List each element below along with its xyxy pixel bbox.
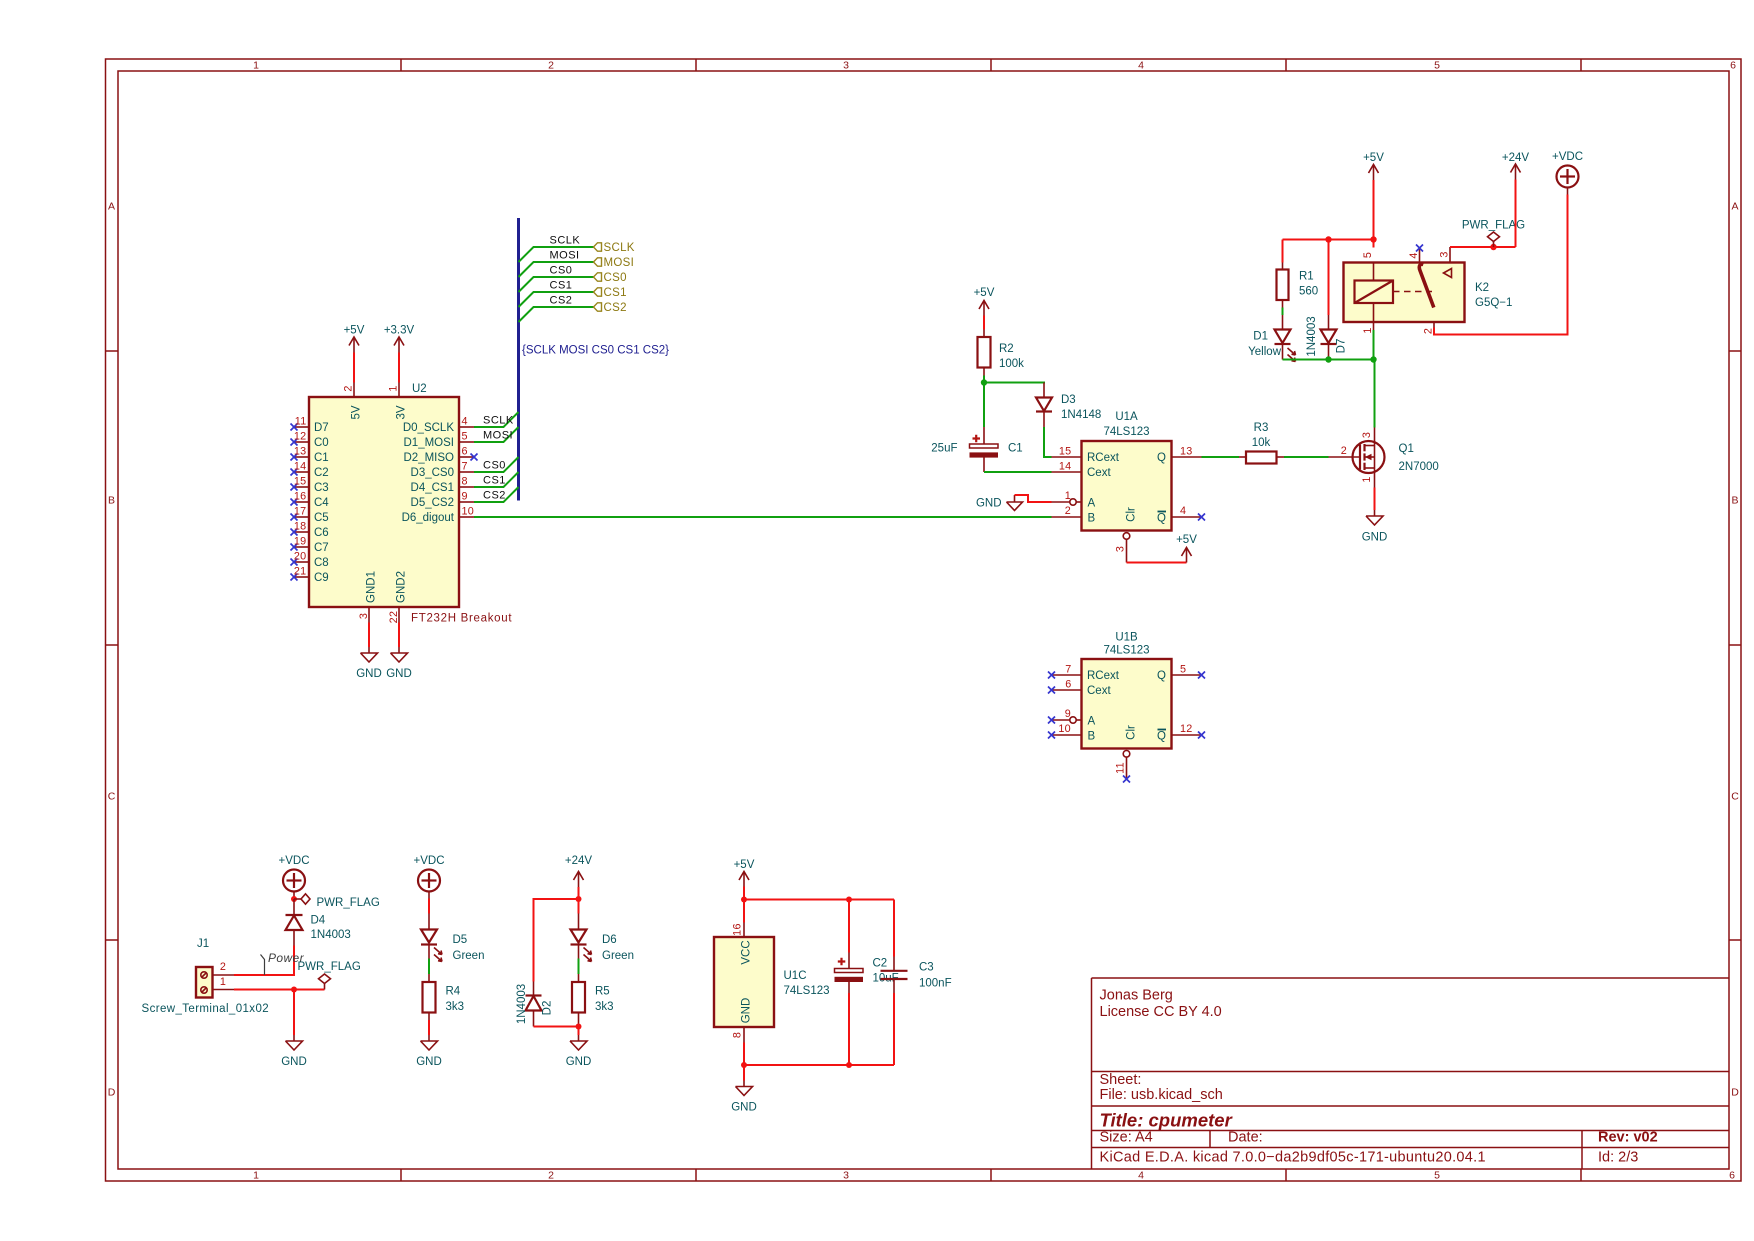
svg-text:+5V: +5V <box>1363 152 1384 164</box>
svg-text:KiCad E.D.A. kicad 7.0.0−da2b: KiCad E.D.A. kicad 7.0.0−da2b9df05c-171-… <box>1100 1150 1486 1166</box>
pin 4 D0_SCLK <box>403 416 474 435</box>
svg-text:11: 11 <box>1115 762 1127 774</box>
svg-text:2: 2 <box>1065 505 1071 517</box>
svg-text:3: 3 <box>358 613 370 619</box>
svg-text:1: 1 <box>1362 327 1374 333</box>
svg-text:+VDC: +VDC <box>414 855 445 867</box>
svg-text:D2_MISO: D2_MISO <box>404 452 455 464</box>
svg-text:4: 4 <box>1138 60 1144 72</box>
svg-text:13: 13 <box>294 446 307 458</box>
ground <box>416 1035 442 1068</box>
power +VDC <box>1552 151 1583 195</box>
svg-text:G5Q−1: G5Q−1 <box>1475 297 1512 309</box>
svg-text:R1: R1 <box>1299 271 1314 283</box>
svg-text:R3: R3 <box>1254 422 1269 434</box>
wire relay pin 3 <box>1450 246 1516 248</box>
svg-text:3k3: 3k3 <box>595 1001 614 1013</box>
wire <box>428 1020 430 1035</box>
svg-text:3V: 3V <box>396 405 408 419</box>
svg-text:Q1: Q1 <box>1399 443 1414 455</box>
power +5V <box>974 287 995 316</box>
wire branch to D2 <box>534 899 579 982</box>
svg-text:U2: U2 <box>412 383 427 395</box>
svg-text:1: 1 <box>1361 476 1373 482</box>
svg-text:A: A <box>1088 716 1096 728</box>
svg-text:C9: C9 <box>314 572 329 584</box>
resistor R3 10k <box>1239 422 1284 464</box>
svg-text:13: 13 <box>1180 446 1193 458</box>
svg-text:1: 1 <box>1065 490 1071 502</box>
svg-text:4: 4 <box>1138 1170 1144 1182</box>
wire <box>578 887 580 914</box>
pin 12 Qbar no-connect <box>1157 723 1205 743</box>
svg-text:C0: C0 <box>314 437 329 449</box>
wire <box>743 1043 745 1081</box>
svg-text:+5V: +5V <box>1176 534 1197 546</box>
hierarchical label MOSI <box>594 257 635 269</box>
ground <box>976 495 1023 511</box>
svg-text:U1B: U1B <box>1115 632 1138 644</box>
svg-text:Size: A4: Size: A4 <box>1100 1130 1153 1146</box>
pin 1 3V <box>388 383 408 420</box>
diode D3 1N4148 <box>1036 383 1101 428</box>
svg-text:5: 5 <box>1434 60 1440 72</box>
ground <box>1362 510 1388 544</box>
pin 14 Cext <box>1052 461 1112 480</box>
junction <box>291 987 297 993</box>
ground <box>281 1035 307 1068</box>
pin 8 D4_CS1 <box>411 476 474 495</box>
svg-text:100nF: 100nF <box>919 978 952 990</box>
svg-text:D3: D3 <box>1061 394 1076 406</box>
wire SCLK <box>519 247 594 262</box>
wire <box>1044 427 1052 457</box>
svg-text:D4: D4 <box>311 915 326 927</box>
svg-text:1: 1 <box>220 976 226 988</box>
svg-text:15: 15 <box>1059 446 1072 458</box>
svg-text:7: 7 <box>1065 664 1071 676</box>
svg-text:D5_CS2: D5_CS2 <box>411 497 454 509</box>
pin 1 A inverted <box>1065 490 1096 510</box>
wire MOSI <box>474 427 519 442</box>
svg-text:+5V: +5V <box>734 859 755 871</box>
U2BLOCK <box>291 325 1052 681</box>
svg-text:CS0: CS0 <box>483 460 506 472</box>
svg-text:12: 12 <box>1180 723 1193 735</box>
pin 8 GND <box>732 998 753 1043</box>
BUSBLOCK <box>519 218 670 501</box>
pin 16 C4 <box>291 491 330 510</box>
pin 4 Qbar no-connect <box>1157 505 1205 525</box>
pin 11 Clr inverted no-connect <box>1115 725 1138 783</box>
power +VDC <box>414 855 445 899</box>
svg-text:D3_CS0: D3_CS0 <box>411 467 454 479</box>
svg-text:Date:: Date: <box>1228 1130 1263 1146</box>
wire R3 to Q1 <box>1284 456 1329 458</box>
svg-text:R5: R5 <box>595 986 610 998</box>
D5BLOCK <box>414 855 485 1068</box>
wire pin2 to D4 <box>234 946 294 976</box>
svg-text:16: 16 <box>294 491 307 503</box>
pin 2 5V <box>343 383 363 420</box>
svg-text:6: 6 <box>1729 1170 1735 1182</box>
svg-text:RCext: RCext <box>1087 452 1120 464</box>
svg-text:D: D <box>1731 1087 1739 1099</box>
svg-text:C3: C3 <box>314 482 329 494</box>
resistor R2 100k <box>978 330 1025 376</box>
svg-text:C7: C7 <box>314 542 329 554</box>
svg-text:Yellow: Yellow <box>1248 346 1282 358</box>
svg-text:CS1: CS1 <box>604 287 627 299</box>
pin 6 D2_MISO no-connect <box>404 446 478 465</box>
IC U1A 74LS123 <box>1082 441 1172 531</box>
svg-text:R4: R4 <box>446 986 461 998</box>
svg-text:GND: GND <box>566 1056 592 1068</box>
svg-text:74LS123: 74LS123 <box>784 985 830 997</box>
LED D5 Green <box>421 914 484 963</box>
svg-text:CS2: CS2 <box>550 295 573 307</box>
svg-text:1: 1 <box>388 385 400 391</box>
svg-text:C: C <box>108 791 116 803</box>
svg-text:Green: Green <box>453 950 485 962</box>
svg-text:5: 5 <box>462 431 468 443</box>
pin 14 C2 <box>291 461 329 480</box>
pin 5 D1_MOSI <box>404 431 475 450</box>
svg-text:C8: C8 <box>314 557 329 569</box>
pin 13 C1 <box>291 446 329 465</box>
junction <box>741 897 747 903</box>
resistor R4 3k3 <box>423 974 465 1020</box>
svg-text:GND: GND <box>976 498 1002 510</box>
wire D7 top <box>1328 240 1330 316</box>
wire +24V <box>1515 180 1517 248</box>
pin 3 GND1 <box>358 571 378 622</box>
svg-text:U1C: U1C <box>784 970 807 982</box>
svg-text:+VDC: +VDC <box>1552 151 1583 163</box>
svg-text:SCLK: SCLK <box>604 242 635 254</box>
wire <box>983 376 985 428</box>
svg-text:FT232H Breakout: FT232H Breakout <box>411 613 512 625</box>
svg-text:11: 11 <box>295 416 307 428</box>
power +24V <box>1502 152 1530 180</box>
wire MOSI <box>519 262 594 277</box>
svg-text:GND: GND <box>1362 532 1388 544</box>
junction <box>291 896 297 902</box>
svg-text:D0_SCLK: D0_SCLK <box>403 422 454 434</box>
pin 9 D5_CS2 <box>411 491 474 510</box>
power +VDC <box>279 855 310 899</box>
pin 10 B no-connect <box>1048 723 1096 743</box>
svg-text:Jonas Berg: Jonas Berg <box>1100 988 1173 1004</box>
diode D4 1N4003 <box>286 899 351 946</box>
wire CS2 <box>474 487 519 502</box>
LED D6 Green <box>571 914 634 963</box>
pin 2 B <box>1052 505 1096 525</box>
svg-text:6: 6 <box>1065 679 1071 691</box>
svg-text:2N7000: 2N7000 <box>1399 461 1439 473</box>
svg-text:A: A <box>1731 201 1738 213</box>
svg-text:1: 1 <box>253 60 259 72</box>
wire <box>984 471 1052 473</box>
wire D2 to R5 <box>534 1026 579 1028</box>
svg-text:C1: C1 <box>1008 443 1023 455</box>
wire <box>428 959 430 975</box>
svg-text:A: A <box>1088 498 1096 510</box>
pin 10 D6_digout <box>402 506 475 525</box>
hierarchical label CS2 <box>594 302 627 314</box>
IC U2 FT232H Breakout <box>309 397 459 607</box>
pin 12 C0 <box>291 431 329 450</box>
svg-text:3: 3 <box>1439 251 1451 257</box>
wire bottom rail <box>744 1064 894 1066</box>
svg-text:+VDC: +VDC <box>279 855 310 867</box>
svg-text:D: D <box>108 1087 116 1099</box>
svg-text:D1_MOSI: D1_MOSI <box>404 437 455 449</box>
power +5V <box>344 325 365 353</box>
U1ABLOCK <box>931 287 1439 563</box>
svg-text:CS2: CS2 <box>483 490 506 502</box>
pin 11 D7 <box>291 416 329 435</box>
svg-text:74LS123: 74LS123 <box>1103 426 1149 438</box>
J1BLOCK <box>142 855 380 1068</box>
svg-text:Cext: Cext <box>1087 685 1111 697</box>
capacitor C2 10uF <box>835 900 899 1066</box>
svg-text:Q: Q <box>1157 513 1166 525</box>
svg-text:4: 4 <box>462 416 468 428</box>
resistor R1 560 <box>1277 263 1319 308</box>
pin 9 A inverted no-connect <box>1048 708 1096 728</box>
svg-text:12: 12 <box>294 431 307 443</box>
bus SCLK/MOSI/CS0/CS1/CS2 <box>517 218 520 501</box>
svg-text:SCLK: SCLK <box>483 415 514 427</box>
pin 5 Q no-connect <box>1157 664 1205 683</box>
svg-text:14: 14 <box>1059 461 1072 473</box>
svg-text:D4_CS1: D4_CS1 <box>411 482 454 494</box>
svg-text:15: 15 <box>294 476 307 488</box>
wire source <box>1374 488 1376 511</box>
pin 19 C7 <box>291 536 329 555</box>
svg-text:1N4003: 1N4003 <box>1306 316 1318 356</box>
svg-text:GND2: GND2 <box>396 571 408 603</box>
wire CS2 <box>519 307 594 322</box>
svg-text:74LS123: 74LS123 <box>1103 645 1149 657</box>
svg-text:C5: C5 <box>314 512 329 524</box>
IC U1C 74LS123 power unit <box>714 937 774 1027</box>
svg-text:B: B <box>1731 495 1738 507</box>
svg-text:100k: 100k <box>999 358 1024 370</box>
svg-text:Title: cpumeter: Title: cpumeter <box>1100 1110 1234 1131</box>
svg-text:5V: 5V <box>351 405 363 419</box>
connector J1 Screw_Terminal_01x02 <box>142 938 270 1015</box>
svg-text:16: 16 <box>732 923 744 936</box>
svg-text:D7: D7 <box>314 422 329 434</box>
pin 16 VCC <box>732 923 753 965</box>
svg-text:MOSI: MOSI <box>604 257 635 269</box>
diode D2 1N4003 <box>516 982 554 1027</box>
svg-text:GND: GND <box>731 1102 757 1114</box>
junction <box>1490 244 1496 250</box>
wire <box>353 353 355 383</box>
pin 18 C6 <box>291 521 329 540</box>
wire relay pin 2 to +VDC <box>1433 322 1435 328</box>
junction <box>1325 236 1331 242</box>
junction <box>1370 356 1376 362</box>
pin 21 C9 <box>291 566 329 585</box>
wire +5V down to relay pin 5 <box>1373 180 1375 248</box>
svg-text:VCC: VCC <box>741 940 753 964</box>
svg-text:2: 2 <box>1423 328 1435 334</box>
ground <box>356 647 382 680</box>
resistor R5 3k3 <box>572 974 614 1027</box>
svg-text:C1: C1 <box>314 452 329 464</box>
wire top rail <box>744 899 894 901</box>
power +24V <box>565 855 593 887</box>
ground <box>386 647 412 680</box>
pin 6 Cext no-connect <box>1048 679 1111 698</box>
svg-text:9: 9 <box>1065 708 1071 720</box>
svg-text:B: B <box>1088 513 1096 525</box>
svg-text:5: 5 <box>1362 252 1374 258</box>
hierarchical label CS0 <box>594 272 627 284</box>
wire <box>368 623 370 648</box>
junction <box>1370 236 1376 242</box>
svg-text:D5: D5 <box>453 934 468 946</box>
net label Power <box>261 951 305 975</box>
power flag PWR_FLAG <box>298 961 361 990</box>
svg-text:Q: Q <box>1157 731 1166 743</box>
svg-text:MOSI: MOSI <box>550 250 580 262</box>
wire relay pin 1 <box>1373 322 1375 330</box>
svg-text:GND: GND <box>416 1056 442 1068</box>
LED D1 Yellow <box>1248 315 1295 362</box>
svg-text:3: 3 <box>843 60 849 72</box>
wire <box>398 353 400 383</box>
svg-text:MOSI: MOSI <box>483 430 513 442</box>
svg-text:Sheet:: Sheet: <box>1100 1072 1142 1088</box>
svg-text:1N4003: 1N4003 <box>516 984 528 1024</box>
svg-text:14: 14 <box>294 461 307 473</box>
svg-text:2: 2 <box>548 60 554 72</box>
svg-text:1: 1 <box>253 1170 259 1182</box>
wire <box>983 316 985 330</box>
svg-text:C2: C2 <box>873 958 888 970</box>
wire <box>398 623 400 648</box>
svg-text:8: 8 <box>462 476 468 488</box>
svg-text:RCext: RCext <box>1087 670 1120 682</box>
svg-text:C: C <box>1731 791 1739 803</box>
svg-text:560: 560 <box>1299 286 1318 298</box>
svg-text:3: 3 <box>1361 432 1373 438</box>
diode D7 1N4003 <box>1306 315 1348 360</box>
svg-text:GND: GND <box>281 1056 307 1068</box>
wire Q to R3 <box>1202 456 1240 458</box>
svg-text:3k3: 3k3 <box>446 1001 465 1013</box>
svg-text:Q: Q <box>1157 452 1166 464</box>
svg-text:Rev: v02: Rev: v02 <box>1598 1130 1658 1146</box>
IC U1B 74LS123 <box>1082 659 1172 749</box>
svg-text:D2: D2 <box>542 1001 554 1016</box>
svg-text:9: 9 <box>462 491 468 503</box>
U1BBLOCK <box>1048 632 1205 783</box>
power flag PWR_FLAG <box>294 894 380 909</box>
svg-text:2: 2 <box>343 385 355 391</box>
junction <box>576 896 582 902</box>
svg-text:2: 2 <box>220 961 226 973</box>
svg-text:Clr: Clr <box>1126 507 1138 522</box>
wire LED node <box>1283 359 1374 361</box>
svg-text:5: 5 <box>1180 664 1186 676</box>
junction <box>576 1024 582 1030</box>
svg-text:U1A: U1A <box>1115 411 1138 423</box>
svg-text:6: 6 <box>462 446 468 458</box>
svg-text:2: 2 <box>1341 445 1347 457</box>
svg-text:Q: Q <box>1157 670 1166 682</box>
svg-text:C2: C2 <box>314 467 329 479</box>
pin 3 Clr inverted <box>1115 507 1138 563</box>
svg-text:CS1: CS1 <box>550 280 573 292</box>
svg-text:A: A <box>108 201 115 213</box>
svg-text:10: 10 <box>462 506 475 518</box>
hierarchical label CS1 <box>594 287 627 299</box>
pin 17 C5 <box>291 506 329 525</box>
hierarchical label SCLK <box>594 242 635 254</box>
svg-text:GND: GND <box>356 668 382 680</box>
svg-text:25uF: 25uF <box>931 443 957 455</box>
pin 7 RCext no-connect <box>1048 664 1120 683</box>
svg-text:+24V: +24V <box>1502 152 1530 164</box>
svg-text:20: 20 <box>294 551 307 563</box>
svg-text:GND1: GND1 <box>366 571 378 603</box>
pin 7 D3_CS0 <box>411 461 474 480</box>
svg-text:22: 22 <box>388 611 400 624</box>
pin 20 C8 <box>291 551 329 570</box>
wire <box>743 887 745 923</box>
svg-text:18: 18 <box>294 521 307 533</box>
svg-text:2: 2 <box>548 1170 554 1182</box>
power flag PWR_FLAG <box>1462 220 1525 248</box>
svg-text:CS1: CS1 <box>483 475 506 487</box>
wire <box>578 959 580 975</box>
svg-text:Green: Green <box>602 950 634 962</box>
pin 15 C3 <box>291 476 329 495</box>
wire GND to A <box>1015 495 1052 502</box>
RELAYBLOCK <box>1248 151 1583 363</box>
svg-text:CS2: CS2 <box>604 302 627 314</box>
svg-text:Clr: Clr <box>1126 725 1138 740</box>
wire digout <box>474 516 1052 518</box>
power +5V <box>1176 534 1197 563</box>
svg-text:C6: C6 <box>314 527 329 539</box>
relay K2 G5Q-1 <box>1344 247 1513 334</box>
capacitor C1 25uF <box>931 427 1022 472</box>
junction <box>741 1062 747 1068</box>
wire <box>1282 240 1284 263</box>
svg-text:Screw_Terminal_01x02: Screw_Terminal_01x02 <box>142 1003 270 1015</box>
power +5V <box>734 859 755 887</box>
svg-text:1N4148: 1N4148 <box>1061 409 1101 421</box>
svg-text:D6: D6 <box>602 934 617 946</box>
svg-text:Id: 2/3: Id: 2/3 <box>1598 1150 1638 1166</box>
svg-text:7: 7 <box>462 461 468 473</box>
svg-text:C3: C3 <box>919 962 934 974</box>
D6BLOCK <box>516 855 634 1068</box>
wire Clr to +5V <box>1127 562 1187 564</box>
wire <box>428 899 430 914</box>
svg-text:SCLK: SCLK <box>550 235 581 247</box>
svg-text:K2: K2 <box>1475 282 1489 294</box>
svg-text:D6_digout: D6_digout <box>402 512 455 524</box>
wire CS1 <box>519 292 594 307</box>
